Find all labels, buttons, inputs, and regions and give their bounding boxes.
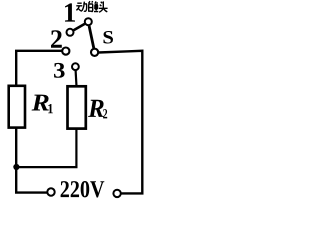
label 3 — [54, 63, 65, 78]
supply terminal left — [47, 188, 54, 195]
wire: left rail lower and bottom-left — [16, 127, 47, 192]
label 220V — [61, 181, 105, 198]
switch blade segment to moving contact — [74, 24, 85, 30]
fixed contact 3 circle — [72, 63, 79, 70]
fixed contact 1 (circle P1) — [67, 29, 74, 36]
label 动触头 (moving contact) — [76, 1, 107, 12]
label S — [104, 31, 114, 44]
resistor R1 — [9, 86, 25, 128]
moving contact circle P2 — [85, 18, 92, 25]
wire: R2 bottom branch to junction — [16, 129, 76, 167]
label 1 (contact number) — [65, 3, 75, 21]
label 2 — [51, 30, 62, 48]
supply terminal right — [113, 190, 120, 197]
switch pivot circle S — [91, 49, 98, 56]
fixed contact 2 circle — [62, 48, 69, 55]
junction node — [13, 164, 19, 170]
switch arm to pivot — [89, 26, 94, 48]
label R1 — [32, 95, 49, 111]
wire: contact 3 to R2 — [74, 70, 77, 86]
resistor R2 — [68, 86, 86, 128]
wire: top-left from corner to contact 2, and left rail upper — [16, 51, 61, 86]
label R2 — [88, 100, 104, 117]
wire: switch output to right rail and down — [98, 51, 142, 194]
